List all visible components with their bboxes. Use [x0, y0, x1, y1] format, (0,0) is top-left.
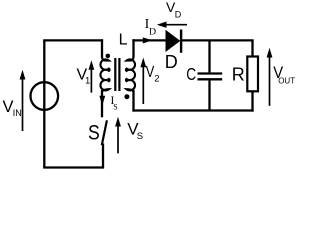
capacitor C plates — [198, 72, 223, 74]
arrow V_S — [115, 117, 121, 154]
transformer phase dot (primary) — [106, 54, 111, 59]
wire: switch bottom stub — [102, 144, 104, 168]
svg-text:D: D — [149, 27, 156, 38]
svg-text:L: L — [119, 31, 128, 48]
svg-text:R: R — [232, 65, 245, 85]
switch S blade — [102, 120, 107, 145]
svg-text:1: 1 — [85, 76, 90, 87]
svg-text:OUT: OUT — [278, 77, 295, 86]
svg-text:D: D — [175, 9, 182, 19]
diode D cathode bar — [180, 30, 182, 53]
wire: bottom rail secondary loop — [132, 109, 253, 111]
svg-text:S: S — [88, 121, 100, 145]
wire: primary top stub — [101, 39, 103, 57]
svg-text:C: C — [186, 65, 196, 84]
voltage source V_IN circle — [31, 82, 59, 110]
svg-text:S: S — [137, 131, 143, 142]
arrow V_D — [157, 22, 187, 28]
wire: resistor branch bottom — [251, 91, 253, 112]
svg-text:D: D — [165, 52, 178, 72]
transformer core — [114, 58, 116, 91]
svg-text:IN: IN — [13, 108, 22, 118]
arrow V_IN — [20, 70, 26, 131]
wire: secondary bottom stub — [132, 90, 134, 112]
wire: capacitor branch top — [208, 40, 210, 72]
wire: primary bottom (switch branch) with I_S — [101, 90, 103, 117]
wire: capacitor branch bottom — [208, 80, 210, 111]
arrowhead I_S (current down) — [99, 96, 105, 106]
transformer primary winding — [100, 57, 109, 93]
arrowhead I_D (current on rail) — [143, 37, 153, 43]
arrow V_1 — [89, 60, 95, 92]
wire: secondary top stub — [132, 39, 134, 57]
transformer secondary winding — [126, 57, 135, 93]
resistor R box — [247, 57, 258, 92]
svg-text:S: S — [113, 103, 117, 112]
svg-text:2: 2 — [154, 74, 159, 85]
arrow V_2 — [140, 58, 146, 105]
wire: top rail right of diode — [181, 39, 254, 41]
transformer phase dot (secondary) — [124, 94, 129, 99]
wire: left vertical (source branch) — [43, 40, 45, 167]
svg-text:V: V — [146, 64, 155, 82]
wire: bottom rail left loop — [43, 166, 104, 168]
diode D triangle — [166, 30, 181, 52]
arrow V_OUT — [267, 48, 273, 106]
wire: resistor branch top — [251, 40, 253, 57]
wire: top rail left loop — [43, 39, 103, 41]
wire: top rail right (anode side) — [132, 39, 166, 41]
